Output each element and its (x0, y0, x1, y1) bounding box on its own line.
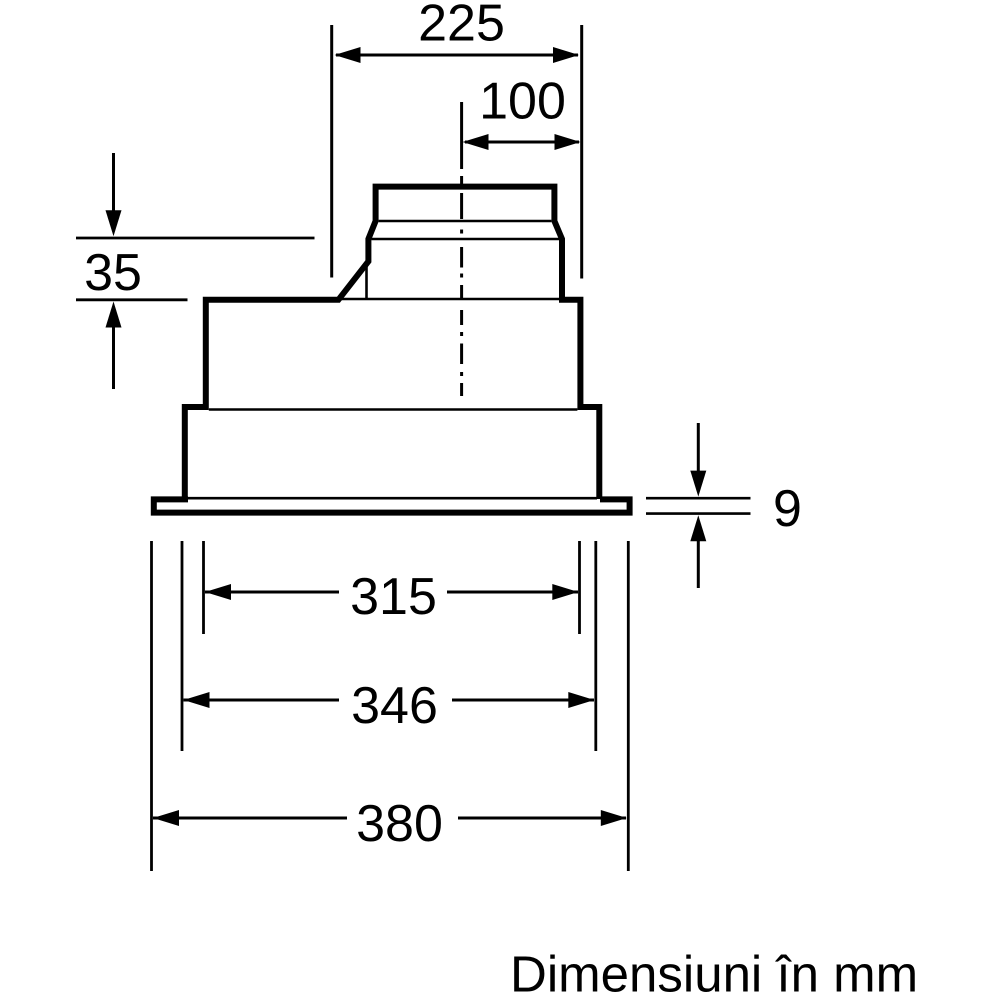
bottom extension line x=151.5 for 380 (150, 541, 153, 871)
svg-text:380: 380 (356, 795, 443, 853)
extension line right for 225 and 100 (580, 25, 583, 279)
svg-text:225: 225 (418, 0, 505, 53)
dimension line 346 (184, 692, 595, 708)
bottom extension line x=182 for 346 (181, 541, 184, 751)
collar inner line lower (thin) (371, 238, 559, 241)
9 dimension extension line top (646, 497, 751, 500)
flange top inner line (thin) (156, 497, 597, 500)
svg-text:100: 100 (479, 73, 566, 131)
bottom flange outer contour (thick) (154, 499, 630, 512)
body step inner line (thin) (209, 408, 578, 411)
svg-text:35: 35 (84, 244, 142, 302)
body top line (thin) (340, 298, 559, 301)
bottom extension line x=595.8 for 346 (594, 541, 597, 751)
centerline (dash-dot) (460, 102, 463, 396)
35 arrow down (106, 153, 122, 236)
hood body outer contour (thick) (185, 187, 600, 499)
svg-text:Dimensiuni în mm: Dimensiuni în mm (510, 946, 918, 1000)
svg-text:315: 315 (350, 568, 437, 626)
svg-text:9: 9 (773, 480, 802, 538)
dimension line 380 (153, 810, 627, 826)
extension line left for 225 (330, 25, 333, 278)
collar inner line upper (thin) (379, 220, 552, 223)
bottom extension line x=579.5 for 315 (578, 541, 581, 634)
35 dimension reference line bottom (76, 298, 188, 301)
35 dimension reference line top (76, 237, 315, 240)
dimension line 225 (335, 47, 580, 63)
9 dimension extension line bottom (646, 512, 751, 515)
bottom extension line x=628.3 for 380 (627, 541, 630, 871)
35 arrow up (106, 302, 122, 390)
9 arrow down (690, 423, 706, 497)
9 arrow up (690, 515, 706, 588)
dimension line 315 (205, 584, 578, 600)
bottom extension line x=203.5 for 315 (202, 541, 205, 634)
svg-text:346: 346 (351, 677, 438, 735)
hidden edge left vertical (thin) (365, 262, 368, 299)
dimension line 100 (463, 134, 581, 150)
